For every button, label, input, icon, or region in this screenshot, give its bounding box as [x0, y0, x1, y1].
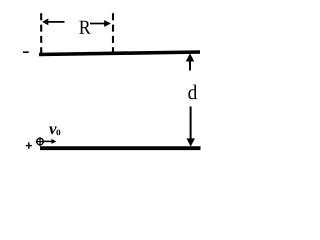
top plate (negative plate) [39, 52, 200, 55]
velocity arrow [44, 139, 57, 144]
charge symbol (circled plus) [36, 137, 45, 146]
dimension R left arrow [42, 19, 64, 26]
label R [79, 21, 90, 34]
bottom plate (positive plate) [40, 146, 201, 150]
label v0 (v) [49, 126, 56, 134]
minus sign [23, 51, 29, 53]
label d [188, 85, 197, 100]
dashed line left [40, 13, 42, 54]
plus sign [26, 142, 32, 149]
dimension R right arrow [90, 20, 111, 27]
dashed line right [112, 13, 114, 53]
dimension d down arrow [187, 107, 195, 147]
label v0 (subscript 0) [56, 130, 60, 136]
dimension d up arrow [186, 53, 194, 70]
